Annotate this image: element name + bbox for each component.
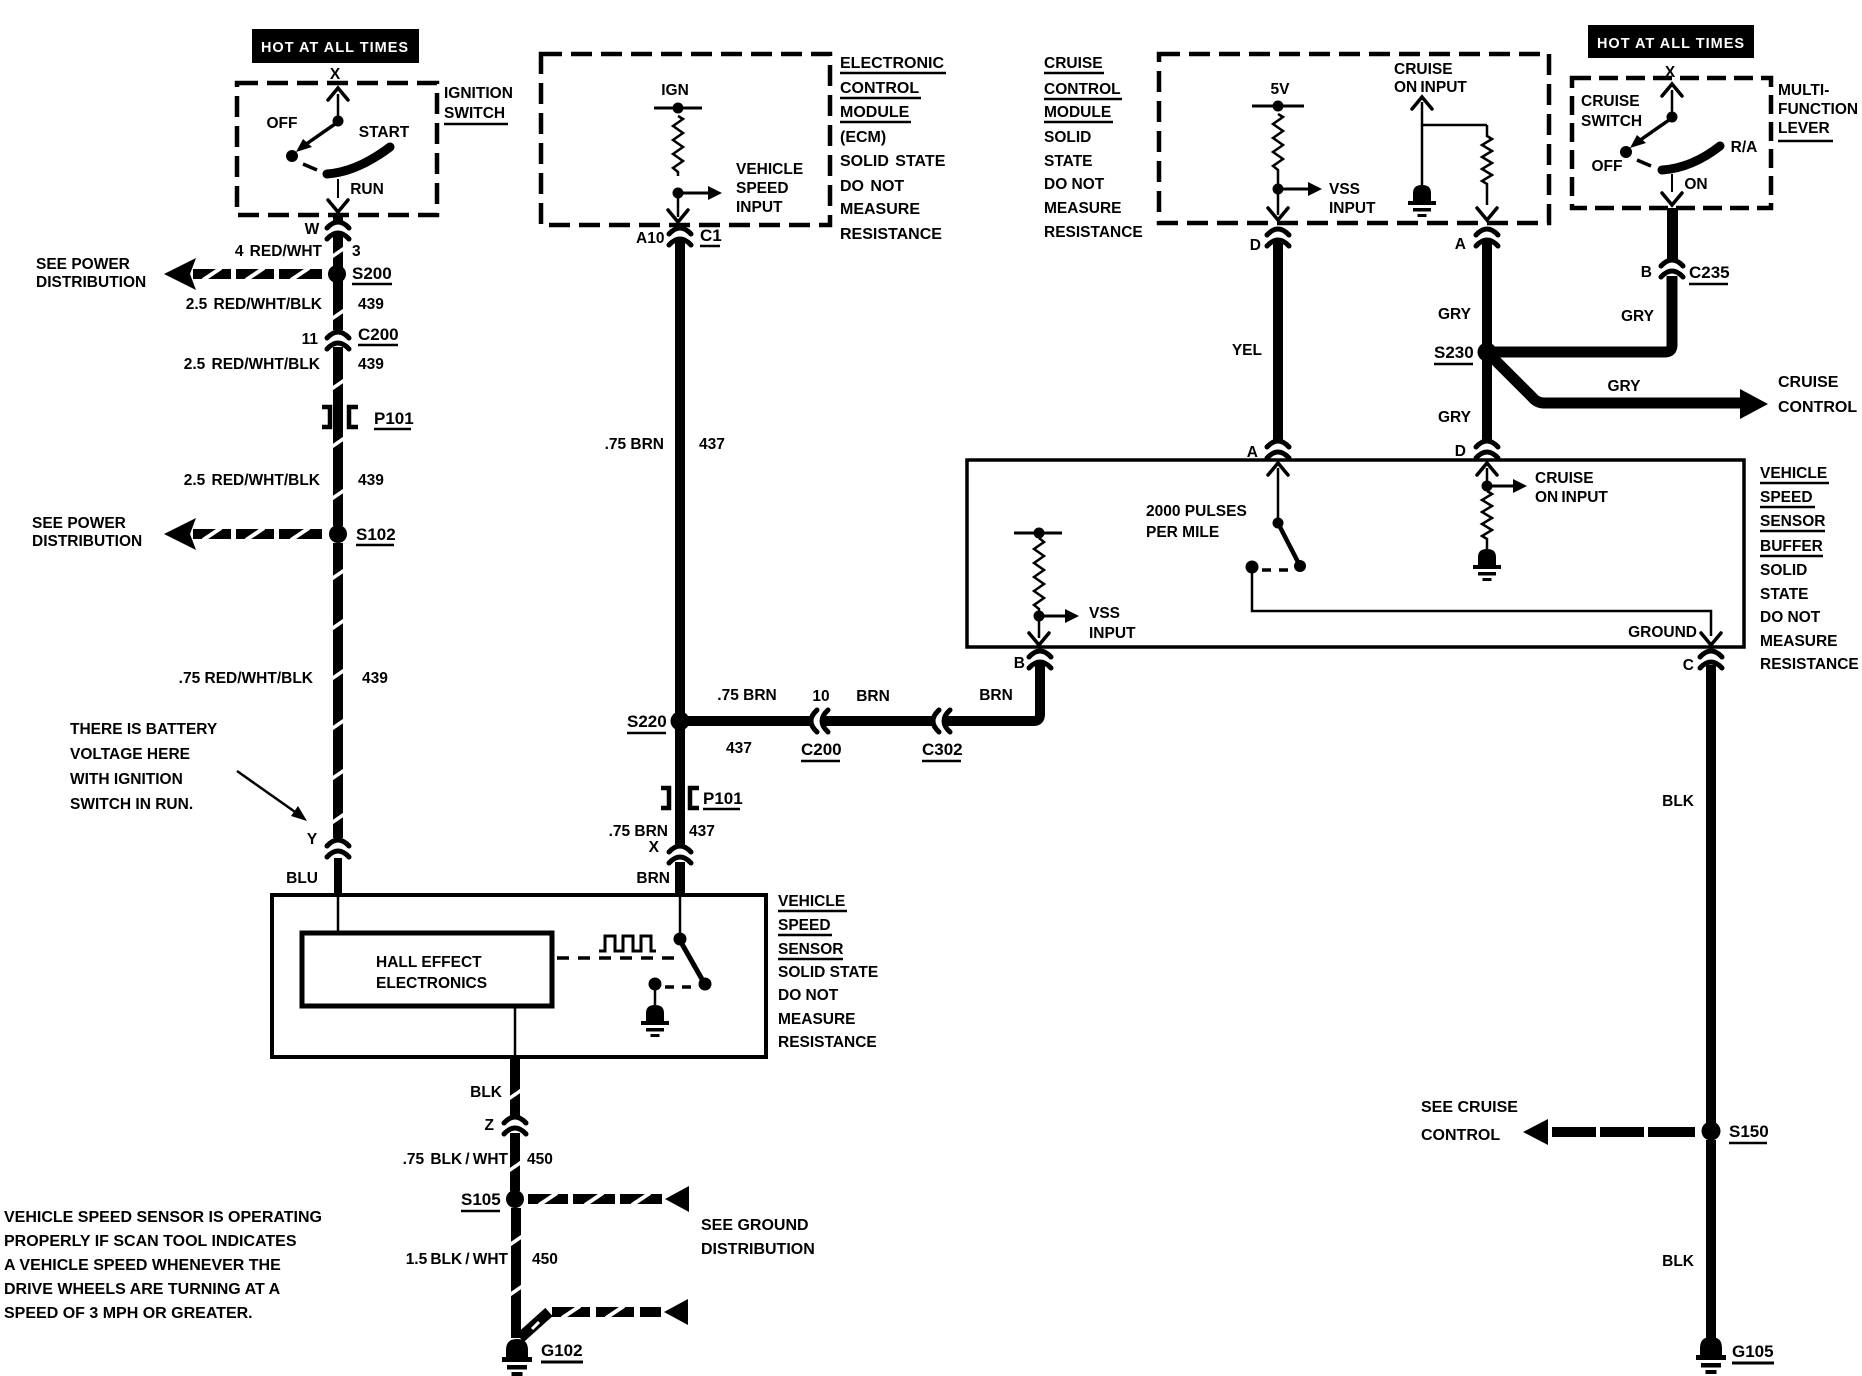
- svg-text:CONTROL: CONTROL: [1778, 399, 1857, 416]
- wire BRN into sensor: [679, 897, 682, 934]
- svg-text:C235: C235: [1689, 263, 1730, 282]
- svg-text:SPEED: SPEED: [1760, 489, 1813, 506]
- svg-text:D: D: [1455, 443, 1466, 460]
- svg-text:C: C: [1683, 657, 1694, 674]
- svg-text:SWITCH: SWITCH: [444, 105, 505, 122]
- svg-text:437: 437: [699, 436, 725, 453]
- operating note text block: [4, 1209, 322, 1322]
- buffer switch arm end: [1294, 560, 1306, 572]
- svg-text:BRN: BRN: [979, 687, 1013, 704]
- svg-text:R/A: R/A: [1731, 139, 1758, 156]
- svg-text:ON: ON: [1684, 176, 1707, 193]
- svg-text:CRUISE: CRUISE: [1778, 374, 1839, 391]
- dashed arrow to cruise control (S150): [1523, 1119, 1695, 1145]
- ECM pull-up resistor: [673, 116, 683, 176]
- wire S230 to cruise control arrow (GRY): [1492, 357, 1768, 419]
- wire S220 to X connector (.75 BRN 437): [675, 729, 685, 846]
- grommet P101: [322, 407, 358, 427]
- ignition switch box (dashed): [237, 83, 437, 215]
- P101 label (center): [703, 789, 743, 809]
- connector module D: [1267, 228, 1289, 246]
- connector C200 (pin 11): [327, 331, 349, 349]
- connector C200 (pin 10, horizontal): [811, 710, 828, 732]
- splice S230: [1478, 343, 1497, 362]
- S105 label: [461, 1190, 501, 1211]
- VEHICLE SPEED INPUT label: [736, 161, 803, 216]
- svg-text:HALL EFFECT: HALL EFFECT: [376, 954, 482, 971]
- svg-text:HOT AT ALL TIMES: HOT AT ALL TIMES: [261, 40, 409, 56]
- svg-text:SOLID STATE: SOLID STATE: [840, 153, 946, 170]
- svg-text:INPUT: INPUT: [1089, 625, 1136, 642]
- buffer input resistor: [1482, 491, 1492, 542]
- svg-text:MODULE: MODULE: [840, 104, 910, 121]
- hall effect electronics box: [302, 933, 552, 1006]
- svg-text:G105: G105: [1732, 1342, 1774, 1361]
- connector B/C235: [1661, 259, 1683, 277]
- multi-function lever box (dashed): [1572, 78, 1771, 208]
- svg-text:A: A: [1455, 236, 1466, 253]
- svg-text:CRUISE: CRUISE: [1581, 93, 1640, 110]
- svg-text:MEASURE: MEASURE: [840, 201, 920, 218]
- vehicle speed input arrow: [683, 186, 722, 200]
- connector buffer B: [1029, 650, 1051, 668]
- CRUISE CONTROL label (arrow): [1778, 374, 1857, 416]
- svg-text:ELECTRONICS: ELECTRONICS: [376, 975, 487, 992]
- cruise control module box (dashed): [1159, 54, 1549, 223]
- sensor switch throw contact: [649, 978, 662, 991]
- buffer switch arm: [1280, 527, 1298, 562]
- buffer divider resistor: [1034, 538, 1044, 611]
- svg-text:.75 RED/WHT/BLK: .75 RED/WHT/BLK: [179, 670, 314, 687]
- svg-text:.75 BRN: .75 BRN: [717, 687, 776, 704]
- svg-text:SWITCH: SWITCH: [1581, 113, 1642, 130]
- sensor internal ground: [641, 989, 669, 1037]
- svg-text:DRIVE WHEELS ARE TURNING AT A: DRIVE WHEELS ARE TURNING AT A: [4, 1281, 281, 1298]
- svg-text:SENSOR: SENSOR: [1760, 513, 1825, 530]
- svg-text:YEL: YEL: [1232, 342, 1262, 359]
- S200 label: [352, 264, 392, 284]
- svg-text:CRUISE: CRUISE: [1044, 55, 1103, 72]
- svg-text:10: 10: [812, 688, 829, 705]
- ground G105: [1696, 1337, 1726, 1374]
- IGN node: [654, 103, 702, 115]
- wire lever to box bottom: [1662, 174, 1682, 205]
- wire Z to S105 (.75 BLK/WHT 450, striped): [507, 1133, 523, 1191]
- svg-text:IGNITION: IGNITION: [444, 85, 513, 102]
- svg-text:B: B: [1641, 264, 1652, 281]
- IGNITION SWITCH label: [444, 85, 513, 124]
- svg-text:P101: P101: [374, 409, 414, 428]
- grommet P101 (center): [661, 788, 699, 808]
- wire S102 to Y connector (.75 RED/WHT/BLK, striped): [330, 543, 346, 838]
- wire C235 to S230 (GRY): [1494, 276, 1672, 352]
- cruise on input arrow (buffer): [1492, 479, 1527, 493]
- svg-text:3: 3: [352, 243, 361, 260]
- svg-text:CONTROL: CONTROL: [1044, 81, 1121, 98]
- wire C200 to P101 (striped): [330, 347, 346, 408]
- svg-text:BRN: BRN: [856, 688, 890, 705]
- buffer A entry chevron: [1268, 463, 1288, 518]
- MULTI-FUNCTION LEVER label: [1778, 82, 1858, 141]
- pulse waveform: [599, 936, 656, 951]
- S230 label: [1434, 343, 1474, 364]
- connector buffer C: [1700, 650, 1722, 668]
- svg-text:VEHICLE: VEHICLE: [1760, 465, 1827, 482]
- svg-text:S105: S105: [461, 1190, 501, 1209]
- SEE GROUND DISTRIBUTION: [701, 1217, 815, 1258]
- svg-text:SOLID: SOLID: [1760, 562, 1807, 579]
- svg-text:GRY: GRY: [1438, 409, 1472, 426]
- dash between contacts: [665, 985, 693, 989]
- wire to ECM pin A10: [668, 198, 688, 222]
- buffer right-side labels: [1760, 465, 1859, 673]
- internal branch line: [1422, 124, 1487, 127]
- svg-text:2000 PULSES: 2000 PULSES: [1146, 503, 1247, 520]
- SEE POWER DISTRIBUTION (upper): [36, 256, 146, 291]
- svg-text:SOLID: SOLID: [1044, 129, 1091, 146]
- svg-text:SWITCH IN RUN.: SWITCH IN RUN.: [70, 796, 193, 813]
- svg-text:IGN: IGN: [661, 82, 689, 99]
- VSS input node: [673, 188, 684, 199]
- buffer output line to ground pin C: [1252, 573, 1711, 636]
- G102 label: [541, 1341, 583, 1362]
- wire from lever to box bottom: [328, 179, 348, 212]
- ignition lever arc (START-RUN): [327, 147, 390, 174]
- svg-text:437: 437: [726, 740, 752, 757]
- internal wire to case bottom: [514, 1006, 517, 1056]
- svg-text:BLU: BLU: [286, 870, 318, 887]
- OFF contact: [286, 150, 298, 162]
- SEE POWER DISTRIBUTION (lower): [32, 515, 142, 550]
- svg-text:VEHICLE: VEHICLE: [736, 161, 803, 178]
- svg-text:CONTROL: CONTROL: [1421, 1127, 1500, 1144]
- svg-text:STATE: STATE: [1760, 586, 1809, 603]
- wire S200 to C200 (2.5 RED/WHT/BLK 439, striped): [330, 281, 346, 330]
- svg-text:BLK: BLK: [470, 1084, 503, 1101]
- svg-text:SEE GROUND: SEE GROUND: [701, 1217, 809, 1234]
- svg-text:PROPERLY IF SCAN TOOL INDICATE: PROPERLY IF SCAN TOOL INDICATES: [4, 1233, 297, 1250]
- buffer D entry chevron: [1477, 463, 1497, 481]
- connector buffer A: [1267, 440, 1289, 458]
- splice S105: [506, 1190, 524, 1208]
- module input resistor: [1482, 125, 1492, 205]
- wire buffer C to S150 (BLK): [1706, 665, 1716, 1123]
- svg-text:BLK: BLK: [1662, 1253, 1695, 1270]
- CRUISE SWITCH label: [1581, 93, 1642, 130]
- svg-text:CONTROL: CONTROL: [840, 80, 919, 97]
- dashed control line: [557, 956, 674, 960]
- splice S102: [329, 525, 347, 543]
- svg-text:ON INPUT: ON INPUT: [1535, 489, 1608, 506]
- svg-text:X: X: [649, 839, 660, 856]
- module internal ground: [1408, 125, 1436, 217]
- svg-text:RUN: RUN: [350, 181, 384, 198]
- svg-text:S230: S230: [1434, 343, 1474, 362]
- cruise switch feed wire: [1662, 84, 1682, 113]
- svg-text:DO NOT: DO NOT: [840, 178, 904, 195]
- svg-text:2.5 RED/WHT/BLK: 2.5 RED/WHT/BLK: [186, 296, 323, 313]
- C1 label: [700, 226, 722, 246]
- svg-text:ON INPUT: ON INPUT: [1394, 79, 1467, 96]
- splice S220: [671, 712, 690, 731]
- ignition switch: feed wire from X: [328, 88, 348, 117]
- svg-text:A VEHICLE SPEED WHENEVER THE: A VEHICLE SPEED WHENEVER THE: [4, 1257, 281, 1274]
- P101 label: [374, 409, 414, 429]
- OFF contact (lever): [1620, 146, 1632, 158]
- S102 label: [356, 525, 396, 545]
- connector W/3: [327, 221, 349, 239]
- svg-text:INPUT: INPUT: [736, 199, 783, 216]
- S150 label: [1729, 1122, 1769, 1143]
- svg-text:VSS: VSS: [1089, 605, 1120, 622]
- svg-text:DO NOT: DO NOT: [1760, 609, 1821, 626]
- buffer VSS output node: [1034, 611, 1045, 622]
- wire to module pin A: [1477, 208, 1497, 220]
- ignition switch arm to OFF: [296, 124, 335, 152]
- splice S200: [328, 265, 346, 283]
- svg-text:STATE: STATE: [1044, 153, 1093, 170]
- svg-text:THERE IS BATTERY: THERE IS BATTERY: [70, 721, 218, 738]
- svg-text:ELECTRONIC: ELECTRONIC: [840, 55, 944, 72]
- wire module D to buffer A (YEL): [1273, 239, 1283, 448]
- svg-text:HOT AT ALL TIMES: HOT AT ALL TIMES: [1597, 36, 1745, 52]
- cruise switch arm to OFF: [1630, 120, 1669, 148]
- svg-text:C200: C200: [358, 325, 399, 344]
- wire to buffer pin B: [1029, 621, 1049, 645]
- svg-text:S220: S220: [627, 712, 667, 731]
- svg-text:Z: Z: [485, 1117, 495, 1134]
- wire lever to C235 (GRY): [1667, 208, 1678, 260]
- VSS input node (module): [1273, 184, 1284, 195]
- sensor switch fixed contact: [674, 933, 687, 946]
- wire S220 to buffer pin B (BRN run): [685, 660, 1040, 721]
- svg-text:START: START: [359, 124, 410, 141]
- dash from OFF contact (lever): [1637, 160, 1651, 166]
- SEE CRUISE CONTROL label: [1421, 1099, 1518, 1144]
- C200 label: [358, 325, 399, 345]
- svg-text:C200: C200: [801, 740, 842, 759]
- svg-text:INPUT: INPUT: [1329, 200, 1376, 217]
- svg-text:VEHICLE SPEED SENSOR IS OPERAT: VEHICLE SPEED SENSOR IS OPERATING: [4, 1209, 322, 1226]
- svg-text:450: 450: [532, 1251, 558, 1268]
- svg-text:.75 BRN: .75 BRN: [605, 436, 664, 453]
- wire X to sensor (BRN): [675, 862, 685, 896]
- 2000 PULSES PER MILE label: [1146, 503, 1247, 541]
- connector X: [669, 845, 691, 863]
- buffer VSS divider top line: [1014, 528, 1062, 539]
- svg-text:439: 439: [358, 296, 384, 313]
- svg-text:SEE CRUISE: SEE CRUISE: [1421, 1099, 1518, 1116]
- svg-text:OFF: OFF: [267, 115, 298, 132]
- wire S150 to G105 (BLK): [1706, 1140, 1716, 1338]
- VSS input arrow (module): [1283, 182, 1322, 196]
- note pointer arrow: [237, 771, 307, 821]
- svg-text:GRY: GRY: [1438, 306, 1472, 323]
- svg-text:11: 11: [302, 331, 319, 348]
- svg-text:P101: P101: [703, 789, 743, 808]
- svg-text:439: 439: [362, 670, 388, 687]
- connector Y: [327, 839, 349, 857]
- svg-text:S102: S102: [356, 525, 396, 544]
- svg-text:1.5 BLK / WHT: 1.5 BLK / WHT: [406, 1251, 509, 1268]
- svg-text:SPEED OF 3 MPH OR GREATER.: SPEED OF 3 MPH OR GREATER.: [4, 1305, 253, 1322]
- chevron at pin C exit: [1701, 633, 1721, 645]
- wire Y to sensor (BLU): [334, 858, 342, 896]
- VSS input arrow (buffer): [1044, 609, 1079, 623]
- cruise module pull-up resistor: [1273, 114, 1283, 184]
- lever arc (ON-R/A): [1662, 146, 1720, 170]
- wire S105 to G102 (1.5 BLK/WHT 450, striped): [508, 1208, 524, 1338]
- ground G102: [502, 1339, 532, 1376]
- ECM labels: [840, 55, 946, 243]
- svg-text:BUFFER: BUFFER: [1760, 538, 1823, 555]
- svg-text:G102: G102: [541, 1341, 583, 1360]
- svg-text:PER MILE: PER MILE: [1146, 524, 1219, 541]
- svg-text:.75 BLK / WHT: .75 BLK / WHT: [403, 1151, 509, 1168]
- svg-text:C302: C302: [922, 740, 963, 759]
- sensor right-side labels: [778, 893, 878, 1051]
- svg-text:C1: C1: [700, 226, 722, 245]
- svg-text:X: X: [330, 66, 341, 83]
- buffer switch throw contact: [1246, 561, 1259, 574]
- connector module A: [1476, 228, 1498, 246]
- wire P101 to S102 (striped): [330, 408, 346, 526]
- dash between buffer contacts: [1262, 568, 1290, 572]
- dashed branch to ground distribution (G102 leg): [520, 1299, 688, 1338]
- svg-text:Y: Y: [307, 831, 318, 848]
- svg-text:D: D: [1250, 237, 1261, 254]
- wire S230 to buffer D (GRY): [1482, 358, 1492, 448]
- svg-text:VEHICLE: VEHICLE: [778, 893, 845, 910]
- svg-text:GRY: GRY: [1621, 308, 1655, 325]
- sensor switch arm: [682, 944, 703, 981]
- VSS INPUT label (module): [1329, 181, 1376, 217]
- svg-text:S200: S200: [352, 264, 392, 283]
- battery voltage note: [70, 721, 218, 813]
- svg-text:437: 437: [689, 823, 715, 840]
- dashed arrow to power distribution (S102): [164, 518, 322, 550]
- svg-text:MEASURE: MEASURE: [778, 1011, 856, 1028]
- CRUISE ON INPUT label (module): [1394, 61, 1467, 96]
- svg-text:2.5 RED/WHT/BLK: 2.5 RED/WHT/BLK: [184, 356, 321, 373]
- ignition switch pivot: [333, 116, 344, 127]
- svg-text:SPEED: SPEED: [778, 917, 831, 934]
- svg-text:MEASURE: MEASURE: [1044, 200, 1122, 217]
- svg-text:W: W: [305, 221, 320, 238]
- svg-text:CRUISE: CRUISE: [1535, 470, 1594, 487]
- svg-text:(ECM): (ECM): [840, 129, 886, 146]
- HOT AT ALL TIMES label (left): [252, 29, 419, 63]
- wire ignition to S200 (4 RED/WHT, striped): [330, 215, 346, 268]
- svg-text:RESISTANCE: RESISTANCE: [778, 1034, 877, 1051]
- ECM box (dashed): [541, 54, 830, 225]
- svg-text:BRN: BRN: [636, 870, 670, 887]
- HOT AT ALL TIMES label (right): [1588, 25, 1754, 58]
- connector Z: [504, 1116, 526, 1134]
- connector buffer D: [1476, 440, 1498, 458]
- svg-text:FUNCTION: FUNCTION: [1778, 101, 1858, 118]
- buffer internal ground (D leg): [1473, 542, 1501, 581]
- dashed arrow to ground distribution (S105): [528, 1186, 689, 1212]
- svg-text:RESISTANCE: RESISTANCE: [1760, 656, 1859, 673]
- cruise on node (buffer): [1482, 481, 1493, 492]
- svg-text:GROUND: GROUND: [1628, 624, 1697, 641]
- splice S150: [1702, 1122, 1721, 1141]
- wire sensor to Z (BLK, striped): [507, 1057, 523, 1117]
- connector C302 (horizontal): [933, 710, 950, 732]
- svg-text:CRUISE: CRUISE: [1394, 61, 1453, 78]
- C200 label (run): [801, 740, 842, 761]
- svg-text:SOLID STATE: SOLID STATE: [778, 964, 878, 981]
- S220 label: [627, 712, 667, 733]
- svg-text:5V: 5V: [1271, 81, 1291, 98]
- svg-text:BLK: BLK: [1662, 793, 1695, 810]
- svg-text:SPEED: SPEED: [736, 180, 789, 197]
- cruise switch pivot: [1667, 112, 1678, 123]
- wire ECM to S220 (.75 BRN 437): [675, 238, 685, 715]
- vehicle speed sensor buffer box: [967, 460, 1744, 647]
- sensor switch arm end: [699, 978, 712, 991]
- CRUISE ON INPUT label (buffer): [1535, 470, 1608, 506]
- G105 label: [1732, 1342, 1774, 1363]
- dash from OFF contact: [303, 164, 317, 170]
- svg-text:B: B: [1014, 655, 1025, 672]
- svg-text:450: 450: [527, 1151, 553, 1168]
- connector A10/C1: [669, 227, 691, 245]
- svg-text:MODULE: MODULE: [1044, 104, 1111, 121]
- C235 label: [1689, 263, 1730, 284]
- svg-text:DO NOT: DO NOT: [1044, 176, 1105, 193]
- cruise module labels: [1044, 55, 1143, 241]
- svg-text:439: 439: [358, 472, 384, 489]
- svg-text:439: 439: [358, 356, 384, 373]
- svg-text:DO NOT: DO NOT: [778, 987, 839, 1004]
- svg-text:.75 BRN: .75 BRN: [609, 823, 668, 840]
- svg-text:2.5 RED/WHT/BLK: 2.5 RED/WHT/BLK: [184, 472, 321, 489]
- svg-text:LEVER: LEVER: [1778, 120, 1830, 137]
- dashed arrow to power distribution (S200): [164, 258, 322, 290]
- svg-text:SEE POWER: SEE POWER: [32, 515, 126, 532]
- svg-text:RESISTANCE: RESISTANCE: [840, 226, 942, 243]
- svg-text:S150: S150: [1729, 1122, 1769, 1141]
- svg-text:SENSOR: SENSOR: [778, 941, 843, 958]
- buffer switch fixed contact: [1273, 518, 1284, 529]
- vehicle speed sensor box: [272, 895, 766, 1057]
- wire to module pin D: [1268, 194, 1288, 220]
- svg-text:DISTRIBUTION: DISTRIBUTION: [701, 1241, 815, 1258]
- svg-text:DISTRIBUTION: DISTRIBUTION: [36, 274, 146, 291]
- svg-text:MULTI-: MULTI-: [1778, 82, 1829, 99]
- svg-text:WITH IGNITION: WITH IGNITION: [70, 771, 183, 788]
- svg-text:VOLTAGE HERE: VOLTAGE HERE: [70, 746, 190, 763]
- wire BLU into hall box: [337, 897, 340, 933]
- VSS INPUT label (buffer): [1089, 605, 1136, 642]
- cruise on input arrow (module): [1412, 97, 1432, 125]
- svg-text:SEE POWER: SEE POWER: [36, 256, 130, 273]
- svg-text:4 RED/WHT: 4 RED/WHT: [235, 243, 323, 260]
- C302 label (run): [922, 740, 963, 761]
- 5V node: [1252, 101, 1304, 113]
- svg-text:GRY: GRY: [1607, 378, 1641, 395]
- wire module A to S230 (GRY): [1482, 239, 1492, 346]
- svg-text:VSS: VSS: [1329, 181, 1360, 198]
- svg-text:RESISTANCE: RESISTANCE: [1044, 224, 1143, 241]
- svg-text:DISTRIBUTION: DISTRIBUTION: [32, 533, 142, 550]
- svg-text:OFF: OFF: [1592, 158, 1623, 175]
- svg-text:MEASURE: MEASURE: [1760, 633, 1838, 650]
- svg-text:A10: A10: [636, 230, 664, 247]
